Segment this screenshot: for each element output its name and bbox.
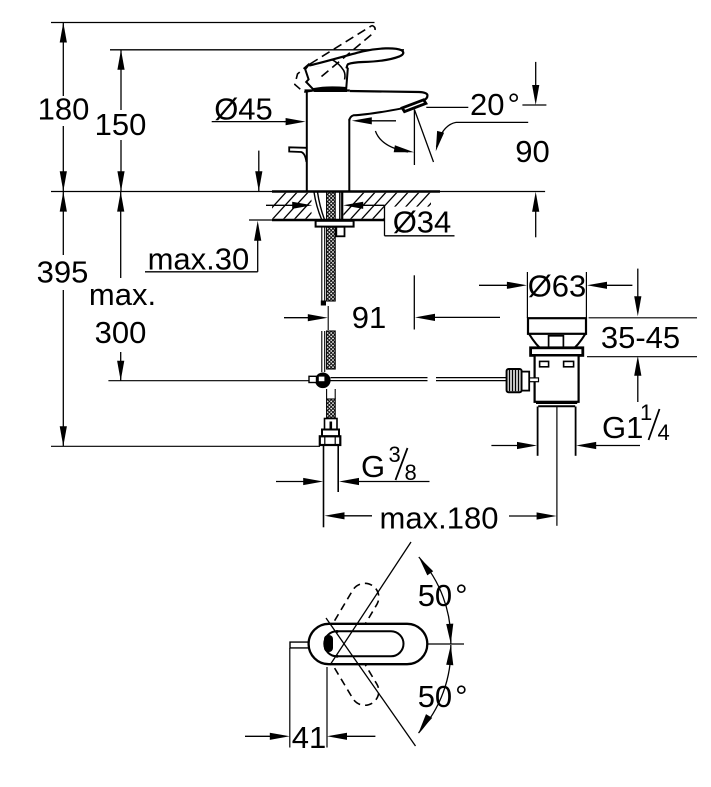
faucet body top cap (305, 89, 350, 91)
spout underside curve (349, 108, 402, 120)
svg-text:20°: 20° (470, 87, 520, 122)
braided hose segment C (327, 399, 336, 418)
label G1 1/4 (602, 400, 670, 445)
dimension max.180 left arrow (325, 512, 373, 519)
countertop thin extension line right (440, 191, 545, 193)
50deg upper boundary line (330, 542, 411, 665)
svg-text:90: 90 (515, 134, 549, 169)
svg-text:300: 300 (95, 315, 147, 350)
41 extension lines (289, 648, 291, 748)
50deg upper arc with arrows (419, 557, 454, 644)
countertop thin extension line left (51, 191, 272, 193)
faucet body left edge (306, 91, 308, 192)
dimension max.30 up arrow below countertop with leader (145, 221, 261, 272)
handle knuckle dark base (314, 87, 347, 91)
hose crimp connector (325, 419, 338, 431)
50deg lower arc with arrows (419, 645, 454, 733)
dimension 180 vertical with arrows (60, 23, 67, 192)
svg-text:4: 4 (658, 420, 670, 445)
20deg label underline (456, 121, 528, 123)
svg-text:G: G (361, 449, 385, 484)
knurled adjustment nut (507, 369, 522, 392)
dimension 41 right arrow (327, 733, 375, 740)
countertop bottom thin extension left (249, 219, 272, 221)
clevis pin detail (530, 378, 539, 382)
svg-text:max.180: max.180 (380, 501, 499, 536)
dimension 35-45 bottom arrow (634, 356, 641, 402)
drain body (535, 355, 579, 401)
drain flange top (528, 318, 586, 334)
20deg slanted reference line (414, 110, 433, 163)
dimension G3/8 left arrow (276, 478, 323, 485)
drain flange taper right (571, 334, 586, 351)
drain body bottom cap (536, 401, 577, 404)
ball joint (315, 373, 331, 389)
dimension 395 vertical with arrows (60, 192, 67, 447)
dimension 41 left arrow (245, 733, 290, 740)
drain Ø63 extension lines (526, 272, 528, 318)
pivot dots (336, 630, 339, 633)
svg-text:1: 1 (640, 400, 652, 425)
20deg left arc with arrow (375, 131, 414, 152)
dimension 91 right arrow (415, 314, 500, 321)
countertop slab bottom edge (272, 219, 385, 222)
handle knuckle solid (305, 65, 348, 90)
svg-text:35-45: 35-45 (601, 320, 680, 355)
dimension G1 1/4 right arrow (576, 442, 640, 449)
shank lower step (336, 227, 344, 237)
handle inner neck line (332, 59, 345, 79)
svg-text:50°: 50° (418, 578, 468, 613)
dimension 90 top arrow (532, 62, 539, 105)
linkage connector block (522, 372, 530, 391)
dashed raised lever line 2 (322, 32, 375, 77)
dashed handle top-view rotated up (335, 583, 379, 623)
mounting flange nut under countertop (316, 221, 354, 227)
cartridge dark blob (324, 635, 333, 652)
hose center line at break (327, 306, 329, 330)
clamp left of ball joint (309, 376, 317, 382)
svg-text:G1: G1 (602, 410, 643, 445)
dimension Ø63 left arrow (479, 282, 527, 289)
20deg right arc leader with arrow (436, 122, 456, 151)
20deg leader from aerator (426, 106, 468, 108)
linkage rod left part (331, 377, 428, 379)
hose edges below ball (326, 389, 328, 399)
braided hose segment A (327, 227, 336, 301)
top view centerline right (427, 643, 464, 645)
35-45 extension lines (589, 317, 697, 319)
dimension G1 1/4 left arrow (491, 442, 537, 449)
drain tailpipe (537, 407, 539, 456)
svg-text:41: 41 (292, 720, 326, 755)
dimension Ø45 right arrow (352, 117, 396, 124)
supply pipe G3/8 (323, 445, 325, 527)
dimension line 180 top horizontal (51, 22, 375, 24)
drain body slot left (540, 361, 549, 366)
91 extension line (413, 275, 415, 329)
spout outlet level tick (522, 104, 546, 106)
threaded shank edges in hole (339, 192, 341, 220)
pop-up rod knob on body left (289, 147, 307, 162)
connector nut upper (322, 430, 339, 437)
drain plug square (549, 336, 564, 348)
extension line at pop-up rod level (max.300 bottom) (108, 380, 309, 382)
extension line at hose end (395 bottom) (51, 445, 320, 447)
dimension line 150 top horizontal (110, 49, 404, 51)
pop-up rod upper (321, 227, 323, 304)
svg-text:180: 180 (38, 92, 90, 127)
pop-up rod curves through countertop (314, 192, 322, 220)
linkage rod right part (436, 377, 507, 379)
svg-text:150: 150 (95, 107, 147, 142)
pin on left of top view (290, 642, 309, 648)
svg-text:91: 91 (352, 300, 386, 335)
label G 3/8 (361, 442, 417, 485)
handle top view inner stadium (324, 631, 403, 656)
svg-text:50°: 50° (418, 679, 468, 714)
svg-text:3: 3 (389, 442, 401, 467)
svg-text:max.30: max.30 (148, 241, 250, 276)
handle lever solid (309, 48, 403, 68)
rod end tick (321, 301, 326, 306)
pop-up rod lower (321, 331, 323, 372)
dimension Ø63 right arrow (587, 282, 632, 289)
spout top edge and tip (350, 91, 428, 100)
dimension G3/8 right arrow (339, 478, 430, 485)
dimension Ø34 right arrow and leader (343, 202, 454, 236)
dimension 35-45 top arrow (634, 269, 641, 317)
countertop hatching right band (336, 189, 466, 223)
aerator at spout tip (402, 100, 426, 112)
drain body slot right (564, 361, 574, 366)
svg-text:max.: max. (89, 277, 156, 312)
dashed raised lever tip arc (372, 26, 375, 33)
svg-text:Ø63: Ø63 (528, 269, 587, 304)
svg-text:Ø34: Ø34 (393, 205, 452, 240)
connector nut hex (320, 436, 341, 445)
braided hose segment B (327, 331, 336, 369)
dimension max.180 right arrow (509, 512, 557, 519)
svg-text:395: 395 (37, 255, 89, 290)
dimension Ø34 left arrow (266, 202, 312, 209)
dimension Ø45 leader with arrow (212, 118, 306, 125)
countertop hatching left band (258, 189, 366, 223)
drain flange taper left (529, 334, 544, 351)
dashed raised lever line 1 (310, 26, 372, 65)
braided hose segment in countertop hole (327, 192, 336, 220)
svg-text:Ø45: Ø45 (214, 92, 273, 127)
50deg lower boundary line (326, 618, 416, 746)
drain tailpipe centerline (556, 407, 558, 526)
faucet body right edge (348, 119, 350, 192)
dimension 90 bottom arrow (532, 192, 539, 238)
drain washer (531, 348, 583, 356)
20deg vertical reference line (413, 110, 415, 166)
dimension 91 left arrow (284, 314, 328, 321)
countertop slab top edge (272, 190, 440, 193)
dimension max.300 vertical with arrows (117, 192, 124, 381)
dimension max.30 down arrow above countertop (255, 151, 262, 192)
dashed handle top-view rotated down (335, 665, 379, 705)
dashed knuckle outline (295, 64, 315, 93)
dimension 150 vertical with arrows (117, 50, 124, 192)
handle top view outer stadium (309, 624, 428, 664)
